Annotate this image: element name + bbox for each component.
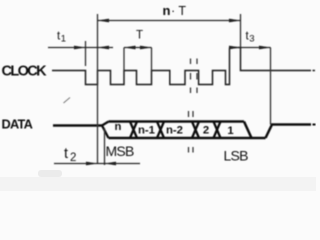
dimension line t2: [54, 163, 140, 165]
svg-text:n-1: n-1: [138, 124, 155, 136]
svg-text:LSB: LSB: [224, 147, 249, 163]
svg-text:2: 2: [203, 125, 209, 137]
clock tall pulse top / right high line: [241, 48, 312, 71]
svg-text:2: 2: [70, 152, 76, 164]
data break dashed line 2: [192, 111, 194, 153]
arrow t2 left-pointing: [105, 162, 117, 166]
extension T right: [151, 48, 153, 71]
svg-text:CLOCK: CLOCK: [2, 64, 48, 80]
data crossover n-2|2: [192, 122, 199, 139]
data top rail: [109, 120, 245, 123]
data closing fall: [244, 122, 252, 139]
extension line long left (clock rise 1): [97, 14, 99, 164]
faint scan smudge band bottom: [0, 177, 316, 191]
faint smudge left: [38, 170, 62, 177]
data idle line left: [53, 124, 102, 127]
extension tick t1 left: [85, 41, 87, 66]
svg-text:MSB: MSB: [106, 143, 135, 159]
dimension line t1: [48, 47, 113, 49]
svg-text:1: 1: [227, 125, 233, 137]
arrow t3 at left tip: [229, 46, 241, 50]
svg-text:· T: · T: [171, 4, 186, 18]
data bus opening transition: [102, 122, 109, 139]
extension line long right (clock last fall): [240, 14, 242, 48]
svg-text:DATA: DATA: [2, 117, 33, 132]
dimension line T: [124, 47, 152, 49]
data rise to idle high: [266, 125, 312, 139]
clock waveform: [52, 48, 230, 85]
arrow n.T right: [229, 19, 241, 23]
svg-text:n-2: n-2: [166, 125, 183, 137]
stray scan mark: [64, 98, 71, 104]
svg-text:1: 1: [61, 34, 66, 45]
extension t3 right: [270, 48, 272, 125]
arrow T right-pointing: [140, 46, 152, 50]
data bottom rail: [109, 137, 266, 140]
extension t2 right: [104, 128, 106, 165]
dimension line t3: [241, 47, 271, 49]
data crossover n|n-1: [130, 122, 137, 139]
clock break dashed line 1: [190, 59, 192, 94]
arrow n.T left: [98, 19, 110, 23]
svg-text:t: t: [64, 146, 68, 162]
data line end dot: [313, 124, 316, 126]
data break dashed line 1: [188, 111, 190, 153]
data crossover n-1|n-2: [157, 122, 164, 139]
dimension line t3 tail (tall pulse top): [230, 47, 241, 49]
arrow T left-pointing: [124, 46, 136, 50]
arrow t1 right-pointing: [74, 46, 86, 50]
data crossover 2|1: [214, 122, 221, 139]
clock break dashed line 2: [196, 59, 198, 94]
extension T left: [123, 48, 125, 71]
arrow t2 right-pointing: [86, 162, 98, 166]
arrow t3 at right tip: [259, 46, 271, 50]
svg-text:3: 3: [249, 34, 254, 45]
dimension line n.T: [98, 20, 241, 22]
svg-text:n: n: [115, 121, 122, 133]
arrow t1 left-pointing: [98, 46, 110, 50]
svg-text:T: T: [136, 30, 143, 42]
svg-text:n: n: [163, 3, 171, 18]
clock line end dot: [313, 70, 316, 72]
